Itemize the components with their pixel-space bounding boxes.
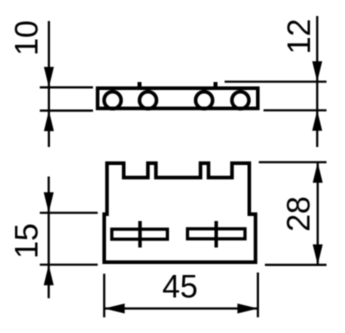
- dimension 28 label: [281, 196, 317, 232]
- dimension 12 extension line bottom: [264, 109, 327, 111]
- dimension 45 extension line left: [103, 274, 105, 318]
- dimension 15 line: [48, 177, 50, 299]
- hole 4: [232, 92, 249, 109]
- dimension 45 line: [104, 307, 258, 309]
- dimension 28 line: [317, 162, 319, 265]
- hole 1: [104, 92, 121, 109]
- dimension 15 extension line bottom: [40, 264, 98, 266]
- terminal slot 2: [188, 229, 246, 239]
- dimension 45 arrow left: [104, 304, 125, 314]
- hole 2: [140, 92, 157, 109]
- svg-text:28: 28: [281, 196, 317, 232]
- dimension 15 arrow up: [44, 265, 54, 286]
- top view mounting tab tick 1: [138, 82, 142, 89]
- dimension 10 line: [48, 21, 50, 147]
- dimension 45 extension line right: [257, 273, 259, 318]
- dimension 10 extension line bottom: [40, 109, 93, 111]
- dimension 28 extension line top: [259, 161, 327, 163]
- dimension 12 extension line top: [225, 81, 327, 83]
- dimension 10 extension line top: [40, 86, 93, 88]
- terminal slot 2 screw line: [214, 221, 218, 248]
- front view body outline: [104, 163, 255, 262]
- dimension 28 arrow down: [313, 244, 323, 265]
- dimension 28 arrow up: [313, 162, 323, 183]
- dimension 15 label: [9, 223, 45, 259]
- svg-text:12: 12: [281, 19, 317, 55]
- dimension 28 extension line bottom: [265, 264, 327, 266]
- dimension 15 arrow down: [44, 192, 54, 213]
- hole 3: [196, 92, 213, 109]
- terminal slot 1 screw line: [138, 221, 142, 248]
- dimension 45 arrow right: [237, 304, 258, 314]
- svg-text:15: 15: [9, 223, 45, 259]
- dimension 10 arrow up: [44, 111, 54, 132]
- dimension 12 line: [316, 16, 318, 147]
- svg-text:10: 10: [9, 20, 45, 56]
- dimension 12 arrow down: [312, 61, 322, 81]
- svg-text:45: 45: [162, 269, 198, 305]
- dimension 10 label: [9, 20, 45, 56]
- terminal slot 1: [112, 229, 168, 239]
- dimension 45 label: [162, 269, 198, 305]
- dimension 10 arrow down: [44, 67, 54, 88]
- dimension 15 extension line top: [40, 212, 98, 214]
- dimension 12 arrow up: [312, 110, 322, 131]
- top view mounting tab tick 2: [214, 82, 218, 89]
- dimension 12 label: [281, 19, 317, 55]
- top view body outline: [98, 88, 258, 108]
